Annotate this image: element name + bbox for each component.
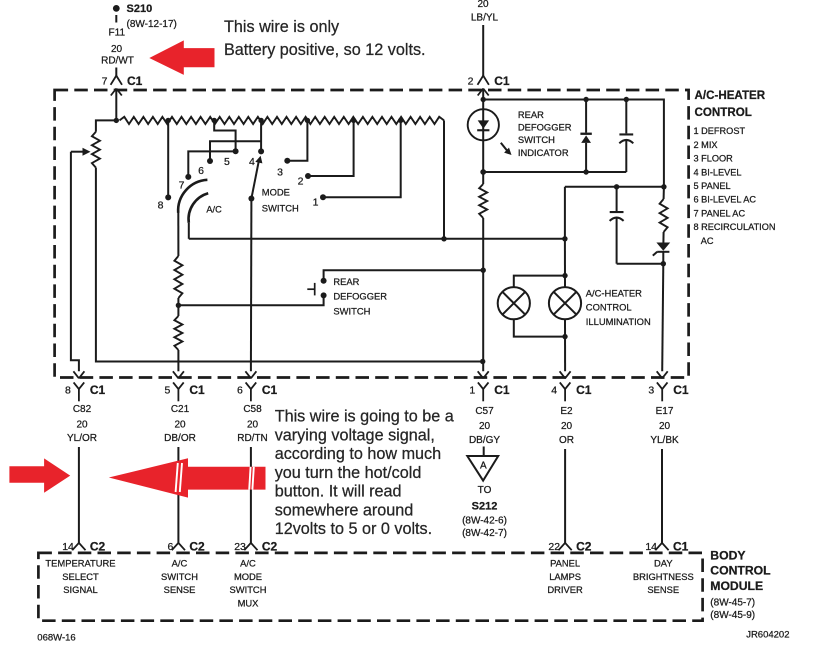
svg-text:E17: E17: [656, 406, 674, 417]
svg-text:2 MIX: 2 MIX: [694, 140, 718, 150]
svg-text:1: 1: [313, 197, 319, 209]
svg-text:SENSE: SENSE: [164, 584, 196, 595]
svg-text:4: 4: [249, 156, 255, 168]
node tap3: [305, 118, 310, 123]
contact 2: [305, 173, 311, 179]
contact 3: [284, 158, 290, 164]
svg-text:C1: C1: [494, 383, 510, 397]
svg-text:CONTROL: CONTROL: [695, 106, 752, 119]
svg-text:F11: F11: [109, 27, 126, 38]
A/C switch arc inner: [189, 193, 209, 223]
wire tap contact 4: [260, 120, 262, 151]
svg-text:23: 23: [234, 541, 246, 553]
low rail wire: [189, 238, 565, 240]
node ground rail join: [480, 359, 485, 364]
bottom rail of indicator cluster: [483, 171, 626, 173]
node lamp top junction: [562, 273, 567, 278]
svg-text:varying voltage signal,: varying voltage signal,: [275, 426, 435, 444]
svg-text:A/C: A/C: [206, 204, 222, 214]
node cap2 top: [614, 184, 619, 189]
wire tap contact 3: [287, 120, 307, 160]
node zener bottom: [661, 261, 666, 266]
svg-text:4: 4: [551, 385, 557, 397]
svg-text:This wire is only: This wire is only: [224, 18, 340, 36]
svg-text:14: 14: [62, 541, 74, 553]
svg-text:C1: C1: [494, 74, 510, 88]
svg-text:A: A: [480, 460, 487, 471]
resistor chain blend-air: [120, 117, 445, 124]
svg-text:6: 6: [237, 385, 243, 397]
wire RD/WT stub: [115, 68, 117, 77]
resistor R-led: [479, 184, 487, 218]
svg-text:12volts to 5 or 0 volts.: 12volts to 5 or 0 volts.: [275, 520, 432, 538]
connector C2 pin 14: [72, 543, 85, 550]
wire C58: [250, 447, 252, 543]
node cap top: [624, 97, 629, 102]
svg-text:20: 20: [561, 421, 573, 432]
wire C82: [78, 447, 80, 543]
wire tap contact 1: [323, 120, 401, 197]
svg-text:DEFOGGER: DEFOGGER: [518, 122, 572, 133]
svg-text:This wire is going to be a: This wire is going to be a: [275, 408, 454, 426]
svg-text:2: 2: [298, 176, 304, 188]
svg-text:6 BI-LEVEL AC: 6 BI-LEVEL AC: [694, 195, 757, 205]
svg-text:LB/YL: LB/YL: [471, 13, 499, 24]
svg-text:TEMPERATURE: TEMPERATURE: [45, 557, 115, 568]
svg-text:MODE: MODE: [234, 571, 262, 582]
svg-text:(8W-42-6): (8W-42-6): [462, 515, 507, 526]
node diode top: [583, 97, 588, 102]
svg-text:3 FLOOR: 3 FLOOR: [694, 154, 734, 164]
svg-text:ILLUMINATION: ILLUMINATION: [586, 316, 651, 327]
svg-text:22: 22: [548, 541, 560, 553]
contact 7: [185, 174, 191, 180]
wire C21: [177, 447, 179, 543]
wire wiper to pin 6: [250, 199, 253, 372]
capacitor C-a top: [625, 100, 627, 134]
contact 4: [258, 148, 264, 154]
lamp L1: [498, 287, 530, 319]
svg-text:C1: C1: [262, 383, 278, 397]
svg-text:YL/BK: YL/BK: [650, 435, 679, 446]
wire branch contact 6: [210, 141, 261, 161]
connector C2 pin 22: [559, 543, 572, 550]
pot wiper arrow: [71, 151, 84, 153]
node chain-end rail: [441, 236, 446, 241]
connector C1 exit pin 5: [173, 371, 184, 401]
svg-text:LAMPS: LAMPS: [549, 571, 581, 582]
connector C1 pin 14: [655, 543, 668, 550]
red arrow small: [9, 458, 70, 492]
LED diode symbol: [478, 120, 489, 128]
svg-text:PANEL: PANEL: [550, 557, 580, 568]
svg-text:20: 20: [247, 419, 259, 430]
svg-text:SENSE: SENSE: [647, 584, 679, 595]
red arrow long: [109, 458, 266, 497]
svg-text:14: 14: [645, 541, 657, 553]
wire resistor to pin1 line: [482, 218, 484, 371]
wire inner arc to low rail: [188, 223, 190, 239]
svg-text:3: 3: [648, 385, 654, 397]
defogger contact upper: [321, 278, 327, 284]
wiper pivot: [248, 196, 254, 202]
node diode bottom: [583, 169, 588, 174]
svg-text:DB/GY: DB/GY: [469, 435, 500, 446]
svg-text:JR604202: JR604202: [746, 629, 789, 640]
svg-text:SWITCH: SWITCH: [518, 134, 555, 145]
svg-text:according to how much: according to how much: [275, 445, 441, 463]
wire to pin 5: [177, 350, 179, 371]
mode switch wiper: [251, 162, 258, 199]
zener diode: [662, 232, 664, 243]
svg-text:C2: C2: [576, 540, 592, 554]
svg-text:(8W-42-7): (8W-42-7): [462, 528, 507, 539]
wire R junction: [177, 298, 179, 316]
potentiometer temperature: [92, 132, 100, 168]
svg-text:SWITCH: SWITCH: [262, 203, 299, 214]
node defogger return: [176, 303, 181, 308]
resistor R-day: [663, 187, 665, 199]
node tap8: [166, 118, 171, 123]
node lamp rail top: [562, 236, 567, 241]
connector C1 exit pin 4: [560, 371, 571, 401]
svg-text:C58: C58: [243, 404, 262, 415]
svg-text:5: 5: [165, 385, 171, 397]
svg-text:(8W-45-9): (8W-45-9): [710, 610, 755, 621]
connector C1 exit pin 8: [73, 371, 84, 401]
svg-text:S212: S212: [472, 500, 498, 512]
svg-text:SIGNAL: SIGNAL: [63, 584, 97, 595]
svg-text:C21: C21: [171, 404, 190, 415]
svg-text:2: 2: [468, 75, 474, 87]
wire wiper to pin8: [71, 152, 79, 372]
defogger actuator: [307, 283, 314, 296]
svg-text:Battery positive, so 12 volts.: Battery positive, so 12 volts.: [224, 41, 426, 59]
node mid rail right: [661, 184, 666, 189]
svg-text:C1: C1: [576, 383, 592, 397]
svg-text:8: 8: [65, 385, 71, 397]
connector C1 exit pin 3: [657, 371, 668, 401]
svg-text:RD/TN: RD/TN: [237, 433, 268, 444]
wire to pin 3: [662, 264, 663, 372]
svg-text:MODULE: MODULE: [710, 579, 763, 593]
svg-text:4 BI-LEVEL: 4 BI-LEVEL: [694, 167, 742, 177]
svg-text:SWITCH: SWITCH: [230, 584, 267, 595]
svg-text:SWITCH: SWITCH: [161, 571, 198, 582]
wire LB/YL: [482, 25, 484, 77]
svg-text:MUX: MUX: [238, 597, 260, 608]
svg-text:S210: S210: [127, 3, 153, 15]
svg-text:20: 20: [477, 0, 489, 10]
svg-text:3: 3: [277, 167, 283, 179]
node LED bottom: [480, 169, 486, 175]
wire lamp1 top link: [514, 276, 565, 288]
svg-text:C82: C82: [73, 404, 92, 415]
wire outer arc down: [177, 213, 179, 257]
svg-text:20: 20: [479, 421, 491, 432]
wire chain left to potentiometer: [96, 120, 116, 131]
svg-text:CONTROL: CONTROL: [586, 302, 632, 313]
svg-text:A/C: A/C: [240, 557, 256, 568]
svg-text:AC: AC: [701, 236, 714, 246]
svg-text:1: 1: [469, 385, 475, 397]
svg-text:(8W-45-7): (8W-45-7): [710, 597, 755, 608]
svg-text:20: 20: [76, 419, 88, 430]
wire pin2 into box: [482, 89, 484, 173]
wire mid rail down-left: [564, 187, 566, 239]
wire tap contact 8: [167, 120, 169, 197]
body control module dashed box: [38, 553, 702, 621]
svg-text:6: 6: [168, 541, 174, 553]
wire lamp feed lower: [564, 319, 566, 371]
svg-text:BODY: BODY: [710, 548, 745, 562]
take-out symbol A to S212: [467, 456, 498, 481]
wire defogger return: [178, 298, 323, 305]
svg-text:A/C-HEATER: A/C-HEATER: [586, 287, 642, 298]
connector C1 pin 2 entry: [478, 76, 489, 96]
wire lamp feed upper: [564, 239, 566, 287]
svg-text:C2: C2: [90, 540, 106, 554]
contact 8: [165, 194, 171, 200]
svg-text:6: 6: [198, 165, 204, 177]
svg-text:A/C: A/C: [172, 557, 188, 568]
node top rail: [481, 97, 486, 102]
svg-text:you turn the hot/cold: you turn the hot/cold: [275, 464, 422, 482]
wire cap2 bottom link: [617, 263, 664, 265]
A/C-heater control dashed box: [55, 90, 689, 378]
resistor R-a/c upper: [174, 256, 182, 298]
svg-text:TO: TO: [478, 485, 492, 496]
clamp diode D1: [585, 100, 587, 133]
contact 5: [233, 148, 239, 154]
svg-text:INDICATOR: INDICATOR: [518, 147, 569, 158]
resistor R-a/c lower: [174, 316, 182, 350]
svg-text:7 PANEL AC: 7 PANEL AC: [694, 208, 746, 218]
wire E17: [661, 449, 663, 543]
wire C57 stub: [483, 447, 485, 456]
svg-text:DRIVER: DRIVER: [547, 584, 583, 595]
svg-text:REAR: REAR: [518, 109, 544, 120]
node tap5: [212, 118, 217, 123]
svg-text:(8W-12-17): (8W-12-17): [127, 19, 177, 30]
svg-text:5 PANEL: 5 PANEL: [694, 181, 731, 191]
svg-text:OR: OR: [559, 435, 574, 446]
svg-text:DB/OR: DB/OR: [164, 433, 196, 444]
svg-text:SELECT: SELECT: [62, 571, 99, 582]
svg-text:8: 8: [158, 199, 164, 211]
wire defogger top: [324, 270, 484, 278]
wire tap contact 2: [308, 120, 354, 176]
wire tap contact 5: [214, 120, 235, 151]
LED indicator circle: [468, 109, 499, 140]
node chain-pot: [114, 118, 119, 123]
svg-text:C1: C1: [127, 74, 143, 88]
splice S210: [113, 5, 120, 23]
svg-text:YL/OR: YL/OR: [67, 433, 97, 444]
svg-text:DAY: DAY: [654, 557, 673, 568]
svg-text:C1: C1: [90, 383, 106, 397]
wire E2: [564, 449, 566, 543]
connector C1 exit pin 6: [245, 371, 256, 401]
contact 6: [207, 158, 213, 164]
svg-text:C2: C2: [262, 540, 278, 554]
svg-text:REAR: REAR: [333, 276, 359, 287]
svg-text:7: 7: [179, 180, 185, 192]
connector C1 pin 7 entry: [111, 76, 122, 96]
svg-text:SWITCH: SWITCH: [333, 305, 370, 316]
indicator pointer arrow: [501, 143, 512, 155]
svg-text:BRIGHTNESS: BRIGHTNESS: [633, 571, 694, 582]
svg-text:7: 7: [102, 75, 108, 87]
lamp L2: [549, 287, 581, 319]
node tap1: [398, 118, 403, 123]
svg-text:20: 20: [111, 44, 123, 55]
wire chain right end down: [443, 120, 445, 238]
top rail wire: [483, 100, 664, 187]
svg-text:20: 20: [174, 419, 186, 430]
node tap4: [258, 118, 263, 123]
svg-text:E2: E2: [560, 406, 573, 417]
wire lamp1 bottom link: [514, 319, 565, 336]
capacitor C-b: [616, 187, 618, 211]
svg-text:068W-16: 068W-16: [37, 632, 75, 643]
svg-text:1 DEFROST: 1 DEFROST: [694, 126, 746, 136]
wire LED branch resistor: [482, 172, 484, 184]
svg-text:A/C-HEATER: A/C-HEATER: [695, 89, 766, 102]
svg-text:C1: C1: [189, 383, 205, 397]
wire pin7 to chain: [115, 89, 117, 121]
mid rail wire: [565, 186, 664, 188]
svg-text:20: 20: [659, 421, 671, 432]
wire pot bottom to ground rail: [96, 168, 483, 362]
svg-text:C2: C2: [189, 540, 205, 554]
svg-text:DEFOGGER: DEFOGGER: [333, 291, 387, 302]
A/C switch arc outer: [178, 180, 207, 213]
connector C1 exit pin 1: [478, 371, 489, 401]
node tap2: [351, 118, 356, 123]
svg-text:8 RECIRCULATION: 8 RECIRCULATION: [694, 222, 776, 232]
defogger contact lower: [321, 292, 327, 298]
svg-text:somewhere around: somewhere around: [275, 501, 414, 519]
contact 1: [320, 194, 326, 200]
svg-text:5: 5: [224, 156, 230, 168]
svg-text:button. It will read: button. It will read: [275, 483, 402, 501]
red arrow battery note: [149, 40, 214, 75]
node defogger feed: [481, 268, 486, 273]
svg-text:CONTROL: CONTROL: [710, 564, 771, 578]
svg-text:MODE: MODE: [262, 187, 290, 198]
node lamp bottom junction: [562, 334, 567, 339]
connector C2 pin 23: [244, 543, 257, 550]
connector C2 pin 6: [172, 543, 185, 550]
svg-text:C57: C57: [475, 406, 494, 417]
wire contact 7 to contact 5: [188, 151, 235, 177]
svg-text:C1: C1: [673, 540, 689, 554]
svg-text:RD/WT: RD/WT: [101, 55, 134, 66]
svg-text:C1: C1: [673, 383, 689, 397]
